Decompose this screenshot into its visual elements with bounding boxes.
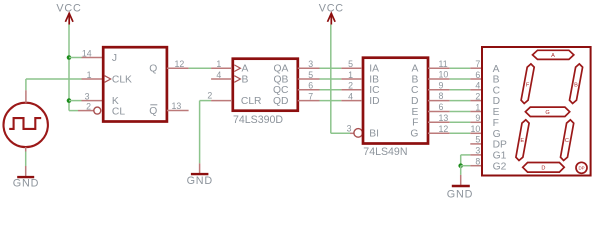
pin 2 stub (CLR)	[211, 100, 232, 102]
svg-text:G: G	[493, 129, 501, 140]
pin 10 stub (B)	[428, 78, 450, 80]
segment A letter	[551, 53, 555, 59]
segment DP circle	[576, 162, 587, 173]
svg-text:6: 6	[475, 70, 480, 80]
svg-text:D: D	[493, 96, 500, 107]
svg-text:13: 13	[439, 113, 449, 123]
pin 1 stub (CLK)	[82, 78, 103, 80]
pin number 3 (BI)	[347, 123, 352, 133]
pin number 2	[86, 101, 91, 111]
label QC	[273, 85, 289, 96]
svg-text:1: 1	[216, 59, 221, 69]
7-segment display box	[482, 47, 591, 176]
pin 2 stub (CL)	[78, 110, 94, 112]
label CLR	[241, 96, 262, 107]
wire to K pin	[69, 100, 82, 102]
clock top pin	[25, 90, 27, 103]
svg-text:4: 4	[475, 81, 480, 91]
segment G	[525, 107, 569, 116]
part name 74LS390D	[233, 114, 283, 126]
JK flip-flop box	[103, 47, 167, 121]
segment B letter	[574, 83, 578, 89]
pin number 13	[439, 113, 449, 123]
pin number 1 (counter A)	[216, 59, 221, 69]
svg-text:13: 13	[172, 101, 182, 111]
clock wedge on CLK pin	[105, 76, 111, 83]
label A	[242, 64, 249, 75]
display pin number 5	[475, 135, 480, 145]
label IC	[369, 85, 380, 96]
label Q	[149, 64, 157, 75]
label D (decoder output)	[411, 96, 418, 107]
svg-text:14: 14	[82, 48, 92, 58]
pin 1 stub (IB)	[341, 78, 362, 80]
wire G to display	[450, 132, 471, 134]
display pin number 6	[475, 70, 480, 80]
clock source circle	[4, 103, 48, 147]
pin 5 stub (QB)	[298, 78, 320, 80]
pin 4 stub (B) unconnected	[211, 78, 232, 80]
svg-text:QD: QD	[273, 96, 288, 107]
label B	[242, 74, 249, 85]
svg-text:K: K	[112, 96, 119, 107]
segment A	[533, 50, 574, 59]
pin 14 stub (J)	[82, 57, 103, 59]
pin number 6	[308, 81, 313, 91]
display label G2	[493, 161, 507, 172]
segment G letter	[545, 110, 549, 116]
label ID	[369, 96, 379, 107]
pin number 12	[439, 124, 449, 134]
display pin number 9	[475, 113, 480, 123]
pin 12 stub (Q)	[167, 67, 189, 69]
svg-text:74LS390D: 74LS390D	[233, 114, 283, 126]
svg-text:10: 10	[439, 70, 449, 80]
pin 1 stub (A)	[211, 67, 232, 69]
pin 5 stub (IA)	[341, 67, 362, 69]
pin number 7	[308, 91, 313, 101]
label CL	[112, 106, 125, 117]
svg-text:74LS49N: 74LS49N	[363, 146, 407, 158]
pin 3 stub (BI)	[350, 132, 354, 134]
svg-text:CL: CL	[112, 106, 125, 117]
VCC symbol (left)	[56, 2, 81, 24]
svg-text:G2: G2	[493, 161, 507, 172]
display label D	[493, 96, 500, 107]
segment D letter	[541, 166, 545, 172]
svg-text:2: 2	[348, 81, 353, 91]
label G (decoder output)	[410, 129, 418, 140]
display label DP	[493, 140, 507, 151]
svg-text:BI: BI	[369, 129, 379, 140]
pin number 2 (CLR)	[207, 90, 212, 100]
wire B to display	[450, 78, 471, 80]
segment DP letter	[578, 166, 584, 171]
display pin number 7	[475, 59, 480, 69]
74LS390D box	[233, 59, 298, 111]
svg-text:5: 5	[348, 59, 353, 69]
wire junction to ground	[460, 166, 462, 175]
label Q-bar	[149, 105, 157, 117]
wire Q to counter A	[189, 67, 212, 69]
display label G1	[493, 151, 507, 162]
svg-text:ID: ID	[369, 96, 379, 107]
display pin 1 stub (E)	[470, 111, 481, 113]
pin number 13	[172, 101, 182, 111]
svg-text:D: D	[411, 96, 418, 107]
segment E letter	[520, 138, 524, 144]
svg-text:7: 7	[308, 91, 313, 101]
pin 11 stub (A)	[428, 67, 450, 69]
pin number 5	[308, 70, 313, 80]
wire A to display	[450, 67, 471, 69]
svg-text:1: 1	[348, 70, 353, 80]
display pin 3 stub (G1)	[470, 154, 481, 156]
wire QB to decoder	[320, 78, 342, 80]
wire C to display	[450, 89, 471, 91]
pin number 3	[308, 59, 313, 69]
display pin number 3	[475, 146, 480, 156]
wire G1 to ground	[461, 155, 471, 166]
wire QD to decoder	[320, 100, 342, 102]
svg-text:10: 10	[471, 124, 481, 134]
junction dot at J pin	[67, 55, 72, 60]
label B (decoder output)	[412, 74, 419, 85]
svg-text:E: E	[520, 138, 524, 144]
display pin 6 stub (B)	[470, 78, 481, 80]
junction dot G2/GND	[458, 163, 463, 168]
wire clock to CLK pin	[26, 79, 82, 90]
pin 13 stub (F)	[428, 121, 450, 123]
svg-text:B: B	[574, 83, 578, 89]
display pin 4 stub (C)	[470, 89, 481, 91]
svg-text:8: 8	[475, 157, 480, 167]
svg-text:12: 12	[175, 59, 185, 69]
wire to CL pin	[69, 110, 78, 112]
svg-text:CLK: CLK	[112, 75, 132, 86]
svg-text:12: 12	[439, 124, 449, 134]
svg-text:F: F	[412, 118, 418, 129]
svg-text:3: 3	[308, 59, 313, 69]
wire to J pin	[69, 57, 82, 59]
pin number 2 (IC)	[348, 81, 353, 91]
pin 6 stub (E)	[428, 111, 450, 113]
display label B	[493, 75, 500, 86]
junction dot at K pin	[67, 98, 72, 103]
svg-text:E: E	[412, 107, 419, 118]
label F (decoder output)	[412, 118, 418, 129]
pin number 4 (ID)	[348, 91, 353, 101]
svg-text:GND: GND	[13, 178, 39, 190]
pin number 10	[439, 70, 449, 80]
svg-text:C: C	[565, 138, 569, 144]
svg-text:IC: IC	[369, 85, 380, 96]
svg-text:Q: Q	[149, 106, 157, 117]
display pin 2 stub (D)	[470, 100, 481, 102]
display label E	[493, 107, 500, 118]
svg-text:2: 2	[86, 101, 91, 111]
wire CLR to ground	[200, 101, 212, 164]
pin 3 stub (K)	[82, 100, 103, 102]
segment D	[523, 163, 565, 173]
label K	[112, 96, 119, 107]
part name 74LS49N	[363, 146, 407, 158]
pin number 9	[439, 80, 444, 90]
display pin 10 stub (G)	[470, 132, 481, 134]
ground GND (middle)	[187, 163, 213, 187]
pin number 6	[439, 102, 444, 112]
svg-text:A: A	[412, 64, 419, 75]
pin number 1	[87, 70, 92, 80]
pin 13 stub (Q-bar)	[167, 110, 189, 112]
segment B	[570, 64, 583, 104]
svg-text:2: 2	[475, 91, 480, 101]
label J	[112, 53, 117, 64]
svg-text:QC: QC	[273, 85, 289, 96]
svg-text:B: B	[242, 74, 249, 85]
wire G2 to junction	[461, 165, 471, 167]
svg-text:QA: QA	[274, 64, 289, 75]
ground GND (left)	[13, 166, 39, 190]
svg-text:E: E	[493, 107, 500, 118]
display pin 9 stub (F)	[470, 121, 481, 123]
label CLK	[112, 75, 132, 86]
svg-text:9: 9	[475, 113, 480, 123]
svg-text:1: 1	[87, 70, 92, 80]
segment C letter	[565, 138, 569, 144]
svg-text:A: A	[242, 64, 249, 75]
svg-text:A: A	[551, 53, 555, 59]
VCC symbol (middle)	[319, 2, 344, 24]
display pin 5 stub (DP) unconnected	[470, 143, 481, 145]
svg-text:J: J	[112, 53, 117, 64]
svg-text:F: F	[493, 118, 499, 129]
svg-text:4: 4	[216, 70, 221, 80]
wire VCC to BI	[331, 25, 350, 134]
display label C	[493, 85, 501, 96]
wire VCC to J/K/CL vertical	[68, 25, 70, 111]
svg-text:G1: G1	[493, 151, 507, 162]
display pin 8 stub (G2)	[470, 165, 481, 167]
display pin number 8	[475, 157, 480, 167]
segment F letter	[526, 83, 530, 89]
svg-text:IB: IB	[369, 74, 379, 85]
inversion bubble on BI pin	[354, 129, 363, 138]
clock bottom pin	[25, 147, 27, 151]
svg-text:F: F	[526, 83, 530, 89]
pin number 4	[216, 70, 221, 80]
pin 6 stub (QC)	[298, 89, 320, 91]
pin number 5 (IA)	[348, 59, 353, 69]
label C (decoder output)	[411, 85, 419, 96]
segment C	[561, 120, 574, 161]
pin 8 stub (D)	[428, 100, 450, 102]
label E (decoder output)	[412, 107, 419, 118]
square wave symbol	[9, 118, 41, 129]
display label F	[493, 118, 499, 129]
svg-text:Q: Q	[149, 64, 157, 75]
svg-text:3: 3	[85, 91, 90, 101]
clock wedge on B pin	[234, 76, 240, 83]
pin 4 stub (ID)	[341, 100, 362, 102]
wire E to display	[450, 111, 471, 113]
pin number 3	[85, 91, 90, 101]
svg-text:4: 4	[348, 91, 353, 101]
label QB	[274, 74, 289, 85]
clock wedge on A pin	[234, 65, 240, 72]
svg-text:DP: DP	[578, 166, 584, 171]
display pin number 1	[475, 102, 480, 112]
pin number 8	[439, 91, 444, 101]
svg-text:1: 1	[475, 102, 480, 112]
display pin number 2	[475, 91, 480, 101]
wire D to display	[450, 100, 471, 102]
pin number 12	[175, 59, 185, 69]
svg-text:IA: IA	[369, 64, 379, 75]
svg-text:5: 5	[308, 70, 313, 80]
segment E	[516, 120, 529, 161]
label IA	[369, 64, 379, 75]
pin 12 stub (G)	[428, 132, 450, 134]
label A (decoder output)	[412, 64, 419, 75]
svg-text:9: 9	[439, 80, 444, 90]
svg-text:B: B	[493, 75, 500, 86]
display pin number 4	[475, 81, 480, 91]
wire QA to decoder	[320, 67, 342, 69]
svg-text:3: 3	[347, 123, 352, 133]
svg-text:11: 11	[439, 59, 448, 69]
pin 3 stub (QA)	[298, 67, 320, 69]
svg-text:6: 6	[439, 102, 444, 112]
svg-text:3: 3	[475, 146, 480, 156]
svg-text:G: G	[545, 110, 549, 116]
wire F to display	[450, 121, 471, 123]
display pin number 10	[471, 124, 481, 134]
svg-text:GND: GND	[447, 188, 473, 200]
label IB	[369, 74, 379, 85]
segment F	[521, 64, 534, 104]
pin 9 stub (C)	[428, 89, 450, 91]
svg-text:G: G	[410, 129, 418, 140]
svg-text:D: D	[541, 166, 545, 172]
pin 2 stub (IC)	[341, 89, 362, 91]
label QA	[274, 64, 289, 75]
pin number 14	[82, 48, 92, 58]
svg-text:B: B	[412, 74, 419, 85]
display label A	[493, 64, 500, 75]
svg-text:7: 7	[475, 59, 480, 69]
pin number 1 (IB)	[348, 70, 353, 80]
label BI	[369, 129, 379, 140]
svg-text:2: 2	[207, 90, 212, 100]
svg-text:5: 5	[475, 135, 480, 145]
svg-text:C: C	[493, 85, 501, 96]
pin number 11	[439, 59, 448, 69]
svg-text:CLR: CLR	[241, 96, 262, 107]
svg-text:QB: QB	[274, 74, 289, 85]
display pin 7 stub (A)	[470, 67, 481, 69]
wire QC to decoder	[320, 89, 342, 91]
pin 7 stub (QD)	[298, 100, 320, 102]
svg-text:A: A	[493, 64, 500, 75]
svg-text:6: 6	[308, 81, 313, 91]
ground GND (right)	[447, 175, 473, 201]
74LS49N box	[363, 58, 428, 144]
wire clock to ground	[25, 152, 27, 167]
label QD	[273, 96, 288, 107]
inversion bubble on CL pin	[94, 107, 101, 114]
display label G	[493, 129, 501, 140]
svg-text:GND: GND	[187, 175, 213, 187]
svg-text:DP: DP	[493, 140, 507, 151]
svg-text:C: C	[411, 85, 419, 96]
svg-text:8: 8	[439, 91, 444, 101]
